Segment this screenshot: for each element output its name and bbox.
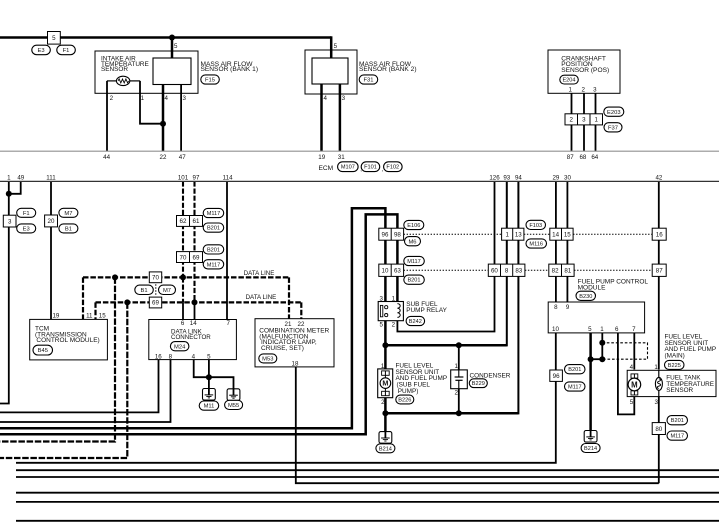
svg-text:M117: M117 [207, 211, 221, 217]
svg-text:2: 2 [569, 117, 573, 124]
svg-text:B242: B242 [409, 319, 422, 325]
svg-text:1: 1 [454, 363, 458, 370]
svg-text:10: 10 [552, 326, 559, 333]
svg-text:3: 3 [593, 87, 597, 94]
svg-text:69: 69 [193, 254, 200, 261]
svg-text:B1: B1 [65, 227, 72, 233]
svg-text:1: 1 [392, 296, 396, 303]
svg-text:3: 3 [8, 218, 12, 225]
svg-text:B230: B230 [579, 294, 592, 300]
svg-text:M55: M55 [228, 403, 239, 409]
svg-text:B201: B201 [671, 418, 684, 424]
svg-text:M11: M11 [204, 404, 215, 410]
svg-text:1: 1 [600, 326, 604, 333]
svg-text:3: 3 [182, 95, 186, 102]
svg-text:5: 5 [52, 35, 56, 42]
svg-text:14: 14 [190, 320, 197, 327]
svg-text:31: 31 [338, 154, 345, 161]
svg-text:8: 8 [169, 353, 173, 360]
svg-text:14: 14 [552, 231, 559, 238]
svg-text:E3: E3 [37, 48, 44, 54]
svg-text:M7: M7 [163, 288, 171, 294]
svg-text:F31: F31 [364, 78, 374, 84]
svg-text:7: 7 [632, 326, 636, 333]
svg-text:16: 16 [656, 231, 663, 238]
svg-text:3: 3 [379, 296, 383, 303]
svg-text:70: 70 [180, 254, 187, 261]
svg-text:3: 3 [582, 117, 586, 124]
svg-text:5: 5 [174, 43, 178, 50]
svg-text:B229: B229 [472, 381, 485, 387]
svg-text:42: 42 [655, 175, 662, 182]
svg-text:2: 2 [454, 389, 458, 396]
svg-text:E204: E204 [562, 78, 575, 84]
svg-text:64: 64 [591, 154, 598, 161]
svg-text:B201: B201 [207, 247, 220, 253]
svg-text:15: 15 [99, 313, 106, 320]
svg-text:126: 126 [489, 175, 500, 182]
svg-text:5: 5 [334, 43, 338, 50]
svg-text:68: 68 [579, 154, 586, 161]
svg-text:63: 63 [394, 268, 401, 275]
svg-text:E106: E106 [407, 223, 420, 229]
svg-text:CONNECTOR: CONNECTOR [171, 334, 211, 341]
svg-text:29: 29 [552, 175, 559, 182]
svg-text:2: 2 [110, 95, 114, 102]
svg-text:F37: F37 [608, 125, 618, 131]
svg-text:44: 44 [103, 154, 110, 161]
svg-text:114: 114 [223, 175, 233, 182]
svg-text:7: 7 [226, 320, 230, 327]
svg-text:SENSOR: SENSOR [666, 387, 693, 394]
svg-text:18: 18 [292, 361, 299, 368]
svg-text:6: 6 [615, 326, 619, 333]
svg-text:B201: B201 [207, 226, 220, 232]
svg-text:5: 5 [379, 321, 383, 328]
svg-text:M53: M53 [262, 357, 273, 363]
svg-text:B1: B1 [140, 288, 147, 294]
svg-text:93: 93 [503, 175, 510, 182]
svg-text:11: 11 [86, 313, 93, 320]
svg-text:ECM: ECM [319, 165, 334, 172]
svg-text:13: 13 [515, 231, 522, 238]
svg-text:2: 2 [392, 321, 396, 328]
svg-text:B201: B201 [407, 278, 420, 284]
svg-text:B214: B214 [584, 446, 597, 452]
svg-text:16: 16 [155, 353, 162, 360]
svg-text:SENSOR (BANK 1): SENSOR (BANK 1) [201, 66, 259, 73]
svg-text:80: 80 [655, 426, 662, 433]
svg-text:CRUISE, SET): CRUISE, SET) [261, 345, 304, 352]
svg-text:69: 69 [152, 300, 159, 307]
svg-text:5: 5 [630, 399, 634, 406]
svg-text:M107: M107 [341, 165, 355, 171]
svg-text:5: 5 [588, 326, 592, 333]
svg-text:B201: B201 [568, 367, 581, 373]
svg-text:1: 1 [654, 364, 658, 371]
svg-text:96: 96 [553, 373, 560, 380]
svg-text:M6: M6 [408, 239, 416, 245]
svg-text:F103: F103 [529, 223, 542, 229]
svg-text:F102: F102 [386, 165, 399, 171]
svg-text:B226: B226 [398, 398, 411, 404]
svg-text:87: 87 [567, 154, 574, 161]
svg-text:20: 20 [48, 218, 55, 225]
svg-text:3: 3 [654, 399, 658, 406]
svg-text:6: 6 [181, 320, 185, 327]
svg-text:47: 47 [179, 154, 186, 161]
svg-text:B45: B45 [38, 348, 48, 354]
svg-text:3: 3 [342, 95, 346, 102]
svg-text:2: 2 [381, 399, 385, 406]
svg-text:M117: M117 [207, 262, 221, 268]
svg-text:82: 82 [552, 268, 559, 275]
svg-text:M: M [631, 380, 638, 389]
svg-text:1: 1 [141, 95, 145, 102]
svg-text:MODULE: MODULE [578, 285, 606, 292]
svg-text:4: 4 [164, 95, 168, 102]
svg-text:61: 61 [193, 218, 200, 225]
svg-text:19: 19 [318, 154, 325, 161]
svg-text:96: 96 [382, 231, 389, 238]
svg-text:10: 10 [382, 268, 389, 275]
svg-text:DATA LINE: DATA LINE [246, 294, 277, 301]
svg-text:SENSOR (POS): SENSOR (POS) [561, 67, 609, 74]
svg-text:PUMP): PUMP) [398, 388, 419, 395]
svg-text:19: 19 [52, 313, 59, 320]
svg-text:CONTROL MODULE): CONTROL MODULE) [36, 337, 99, 344]
svg-text:SENSOR (BANK 2): SENSOR (BANK 2) [359, 66, 417, 73]
svg-text:B214: B214 [379, 446, 392, 452]
svg-text:4: 4 [630, 364, 634, 371]
svg-text:B225: B225 [668, 363, 681, 369]
svg-text:4: 4 [323, 95, 327, 102]
svg-text:M117: M117 [671, 434, 685, 440]
svg-text:111: 111 [46, 175, 56, 182]
svg-text:22: 22 [160, 154, 167, 161]
svg-text:1: 1 [7, 175, 11, 182]
svg-text:8: 8 [505, 268, 509, 275]
svg-text:F101: F101 [364, 165, 377, 171]
svg-text:5: 5 [207, 353, 211, 360]
svg-text:F15: F15 [205, 78, 215, 84]
svg-text:1: 1 [568, 87, 572, 94]
svg-text:30: 30 [564, 175, 571, 182]
svg-text:87: 87 [656, 268, 663, 275]
svg-text:94: 94 [515, 175, 522, 182]
svg-text:62: 62 [180, 218, 187, 225]
svg-text:E3: E3 [23, 227, 30, 233]
svg-text:98: 98 [394, 231, 401, 238]
svg-text:M117: M117 [407, 259, 421, 265]
svg-text:4: 4 [192, 353, 196, 360]
svg-text:E203: E203 [607, 110, 621, 116]
svg-text:1: 1 [381, 363, 385, 370]
svg-text:97: 97 [193, 175, 200, 182]
svg-text:F1: F1 [63, 48, 70, 54]
svg-text:(MAIN): (MAIN) [665, 353, 685, 360]
svg-text:49: 49 [17, 175, 24, 182]
svg-text:PUMP RELAY: PUMP RELAY [406, 307, 447, 314]
svg-text:83: 83 [515, 268, 522, 275]
svg-text:101: 101 [178, 175, 189, 182]
svg-text:M116: M116 [529, 242, 543, 248]
svg-text:21: 21 [285, 321, 292, 328]
svg-text:M: M [382, 379, 388, 388]
svg-text:F1: F1 [23, 211, 30, 217]
svg-text:60: 60 [491, 268, 498, 275]
svg-text:M7: M7 [64, 211, 72, 217]
svg-text:M24: M24 [174, 344, 186, 350]
svg-text:SENSOR: SENSOR [101, 66, 128, 73]
svg-text:70: 70 [152, 275, 159, 282]
svg-text:81: 81 [564, 268, 571, 275]
svg-text:9: 9 [566, 304, 570, 311]
svg-text:8: 8 [554, 304, 558, 311]
svg-text:15: 15 [564, 231, 571, 238]
svg-text:22: 22 [298, 321, 305, 328]
svg-text:2: 2 [581, 87, 585, 94]
svg-text:DATA LINE: DATA LINE [244, 270, 275, 277]
svg-text:1: 1 [505, 231, 509, 238]
svg-text:1: 1 [594, 117, 598, 124]
svg-text:M117: M117 [568, 385, 582, 391]
